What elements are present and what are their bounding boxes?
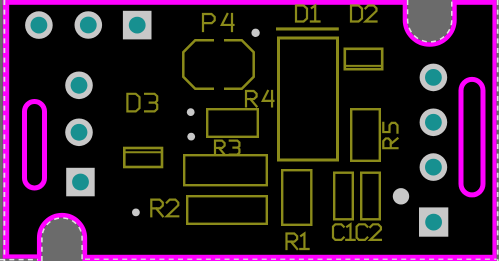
label R1: [287, 234, 309, 250]
connector P4 octagon outline: [183, 40, 253, 88]
diode D2 body outline: [345, 49, 382, 69]
board outline left edge: [3, 0, 9, 259]
sheet area right of board edge: [497, 0, 499, 261]
board outline bottom edge left of cutout: [3, 254, 40, 258]
test point dot upper left of R4: [187, 108, 195, 116]
test point dot near P4: [251, 29, 259, 37]
dashed sheet line right edge: [497, 0, 499, 261]
capacitor C2 body outline: [361, 173, 380, 220]
diode D1 body outline: [279, 38, 338, 160]
diode D3 body outline: [124, 148, 162, 167]
label R5 (rotated): [383, 123, 397, 148]
top edge U-notch cutout outline: [405, 0, 454, 45]
pad top row 3 (square, pin 1): [123, 11, 152, 40]
test point dot right of C2: [393, 188, 409, 204]
dashed sheet line left edge: [3, 0, 5, 261]
dashed sheet line bottom edge left segment: [0, 259, 38, 261]
sheet area left of board edge: [0, 0, 3, 261]
pad top row 1: [25, 11, 53, 39]
label D3: [127, 94, 157, 112]
pad top row 2: [75, 11, 103, 39]
pad left column 2: [65, 119, 93, 147]
capacitor C1 body outline: [334, 173, 353, 220]
label D2: [351, 6, 377, 22]
resistor R3 body outline: [184, 155, 267, 185]
resistor R1 body outline: [282, 170, 311, 225]
label C1: [333, 224, 355, 240]
resistor R5 body outline: [351, 109, 380, 161]
diode D1 cathode bar: [276, 27, 339, 30]
bottom edge dome dashed sheet line: [42, 218, 82, 261]
pad right column 3: [420, 153, 448, 181]
left mounting slot: [25, 102, 45, 189]
board outline right edge: [492, 0, 496, 261]
label R4: [246, 91, 273, 106]
resistor R4 body outline: [207, 109, 258, 137]
test point dot lower left of R4: [187, 133, 195, 141]
label C2: [357, 224, 381, 240]
test point dot left of R2: [132, 209, 140, 217]
bottom edge dome cutout interior: [42, 218, 83, 261]
board outline top edge: [3, 0, 499, 5]
pad left column 1: [65, 72, 93, 100]
label R3: [215, 141, 239, 155]
top edge U-notch dashed sheet line: [408, 0, 452, 42]
label P4: [203, 14, 233, 31]
resistor R2 body outline: [187, 196, 267, 224]
top edge U-notch cutout interior: [407, 0, 452, 42]
right mounting slot: [461, 79, 483, 194]
sheet area below bottom-left board edge: [0, 259, 42, 261]
label D1: [296, 6, 320, 22]
pad right column 1: [420, 64, 448, 92]
pad right column 4 (square, pin 1): [419, 207, 448, 236]
pad right column 2: [420, 109, 448, 137]
board outline bottom edge right of cutout: [85, 255, 497, 261]
pad left column 3 (square, pin 1): [66, 168, 95, 197]
bottom edge dome cutout outline: [39, 215, 85, 261]
label R2: [151, 200, 178, 217]
dashed sheet line bottom edge right segment: [85, 258, 497, 260]
